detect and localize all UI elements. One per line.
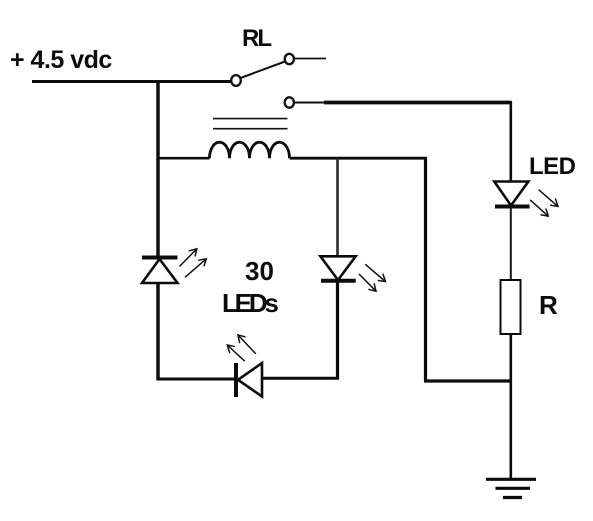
wire right inner bottom horizontal [424,379,512,382]
svg-text:+ 4.5 vdc: + 4.5 vdc [10,46,112,74]
wire left branch lower vertical [156,283,160,381]
switch RL upper throw contact [285,54,294,64]
wire upper throw stub [295,58,326,60]
resistor R body [501,280,521,334]
wire lower throw thin lead [295,102,326,104]
relay core line lower [213,128,288,130]
svg-text:LEDs: LEDs [222,288,278,318]
LED D2 middle: triangle [320,256,355,280]
LED D1 arrows [180,249,197,267]
LED D1 left: triangle [142,259,178,283]
switch RL lower throw contact [285,97,294,107]
ground bar 3 [503,496,522,499]
LED D4 right: triangle [494,182,528,206]
switch RL pole contact [231,75,241,86]
LED D1 left: cathode bar [142,256,178,260]
LED D4 right: cathode bar [495,205,530,209]
wire coil right lead [290,157,428,160]
wire lower throw to right branch [324,101,511,105]
ground bar 1 [486,478,536,481]
relay core line upper [213,118,288,120]
relay coil L1 [210,142,290,158]
wire LED to resistor [510,207,512,280]
wire top supply rail [32,80,233,83]
LED D4 arrows [539,190,558,207]
LED D3 bottom: triangle [238,363,262,397]
svg-text:30: 30 [245,256,274,286]
LED D3 arrows [238,335,256,354]
svg-text:LED: LED [529,153,576,180]
wire left branch upper vertical [156,81,160,258]
wire middle branch upper vertical [336,158,339,257]
wire resistor to ground [509,334,512,479]
wire right branch upper vertical [509,101,512,182]
svg-text:RL: RL [242,25,271,52]
switch RL lever [241,62,286,79]
wire bottom left horizontal [157,378,237,381]
LED D2 middle: cathode bar [321,279,356,283]
LED D3 bottom: cathode bar [234,363,238,397]
wire coil left lead [158,157,210,160]
svg-text:R: R [539,290,558,320]
wire middle branch lower vertical [336,281,339,380]
LED D2 arrows [365,264,385,281]
wire bottom LED to middle branch [262,377,339,380]
wire right inner vertical [424,157,427,381]
ground bar 2 [496,487,531,490]
